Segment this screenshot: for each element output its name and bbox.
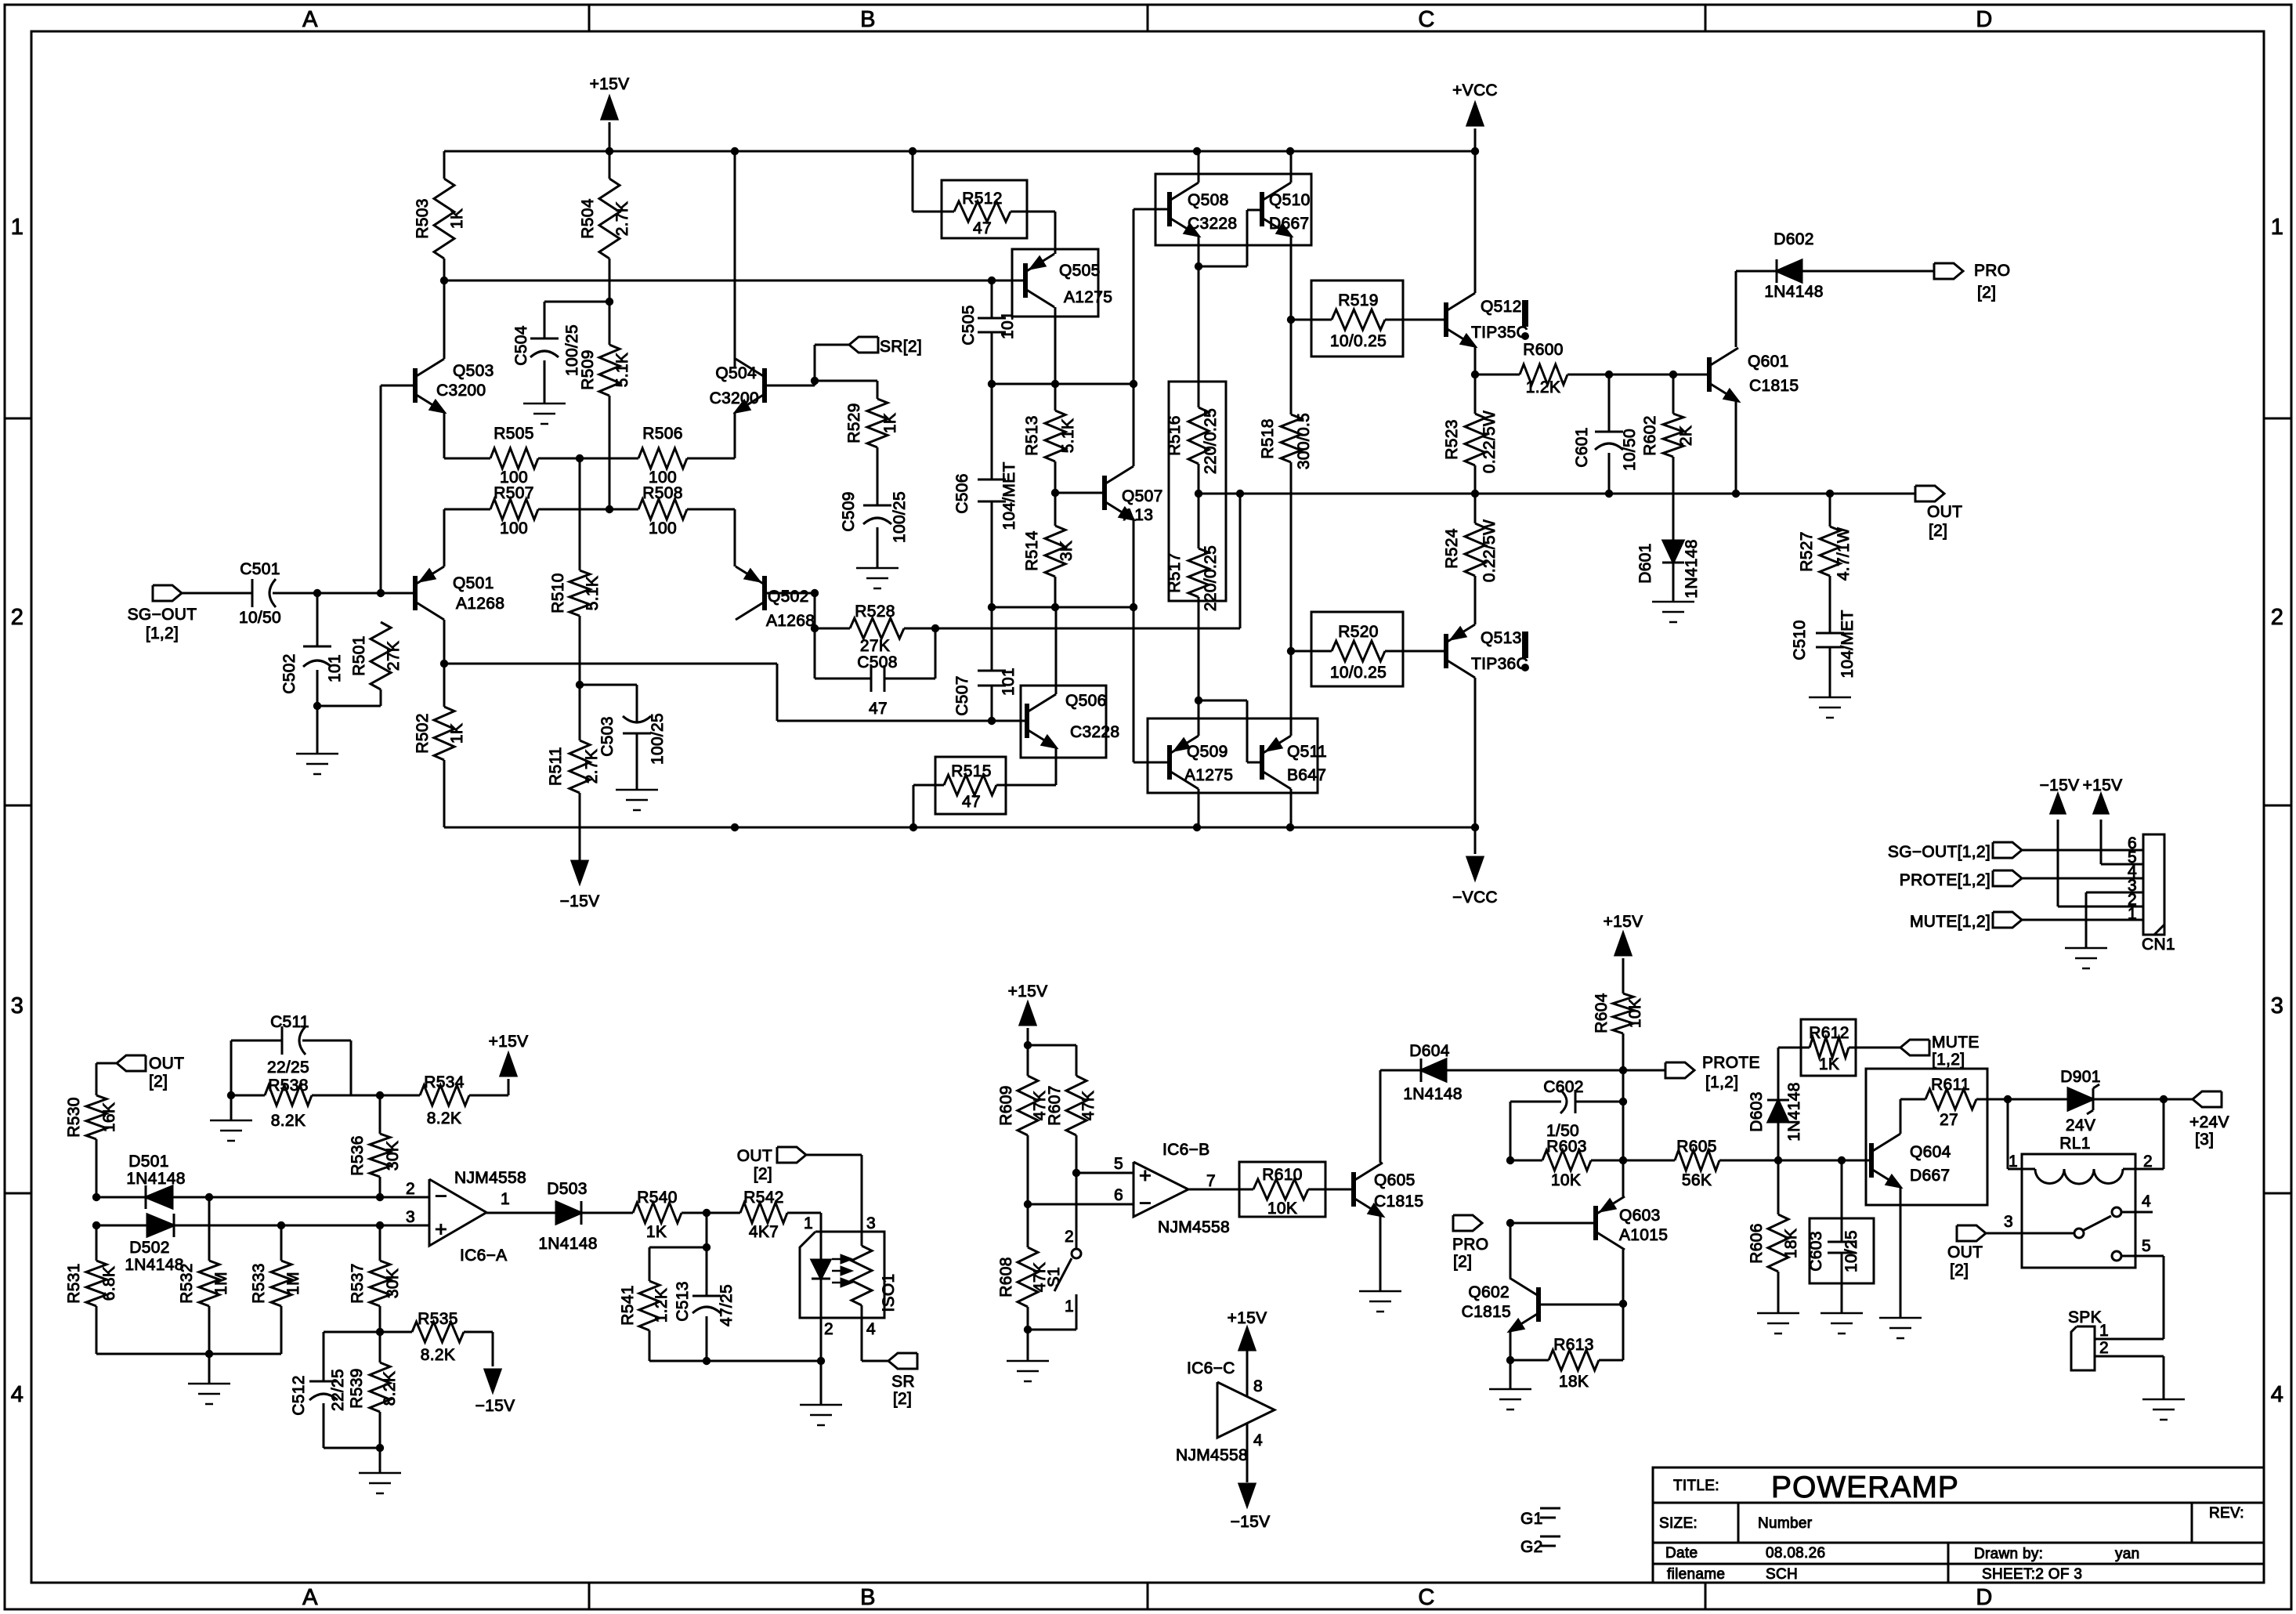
svg-text:+15V: +15V [1228, 1309, 1267, 1327]
svg-text:R517: R517 [1166, 552, 1184, 592]
svg-text:10K: 10K [1551, 1171, 1581, 1189]
svg-text:R611: R611 [1931, 1076, 1970, 1094]
svg-text:104/MET: 104/MET [1839, 610, 1857, 678]
svg-text:R613: R613 [1553, 1336, 1593, 1354]
svg-text:100/25: 100/25 [649, 713, 667, 765]
svg-text:C602: C602 [1543, 1078, 1583, 1096]
svg-text:Q602: Q602 [1468, 1283, 1510, 1301]
svg-text:ISO1: ISO1 [880, 1273, 898, 1312]
svg-text:1: 1 [2271, 215, 2283, 240]
svg-text:2: 2 [2099, 1339, 2109, 1357]
svg-text:R513: R513 [1023, 415, 1041, 455]
svg-text:C511: C511 [270, 1013, 309, 1031]
svg-text:C512: C512 [290, 1375, 308, 1415]
svg-text:OUT: OUT [149, 1055, 184, 1073]
svg-text:0.22/5W: 0.22/5W [1481, 519, 1499, 582]
svg-text:4K7: 4K7 [749, 1223, 779, 1241]
svg-text:PRO: PRO [1452, 1236, 1488, 1254]
svg-text:NJM4558: NJM4558 [1158, 1218, 1230, 1236]
svg-text:24V: 24V [2066, 1116, 2095, 1135]
svg-text:R609: R609 [997, 1085, 1015, 1125]
svg-text:R528: R528 [855, 603, 895, 621]
svg-text:18K: 18K [1782, 1229, 1800, 1258]
svg-text:−VCC: −VCC [1452, 888, 1498, 907]
svg-text:C1815: C1815 [1374, 1192, 1423, 1210]
svg-text:1K: 1K [448, 723, 466, 744]
svg-text:yan: yan [2115, 1546, 2140, 1562]
svg-text:[1,2]: [1,2] [1705, 1073, 1738, 1091]
svg-text:SG−OUT[1,2]: SG−OUT[1,2] [1888, 843, 1990, 861]
svg-text:10K: 10K [1267, 1200, 1297, 1218]
svg-text:Q605: Q605 [1374, 1171, 1416, 1189]
svg-text:R501: R501 [350, 635, 368, 675]
svg-text:R524: R524 [1443, 528, 1461, 568]
svg-text:R509: R509 [579, 349, 597, 389]
svg-text:4: 4 [1253, 1431, 1263, 1449]
svg-text:C505: C505 [960, 305, 978, 345]
svg-text:1: 1 [2009, 1153, 2018, 1171]
svg-text:NJM4558: NJM4558 [1176, 1446, 1248, 1464]
svg-text:R506: R506 [642, 425, 682, 443]
svg-text:R515: R515 [951, 762, 991, 780]
svg-text:G2: G2 [1520, 1538, 1543, 1556]
svg-text:R512: R512 [962, 190, 1002, 208]
svg-text:R610: R610 [1262, 1166, 1302, 1184]
svg-text:C504: C504 [512, 325, 530, 365]
svg-text:R530: R530 [65, 1097, 83, 1137]
svg-text:3: 3 [2004, 1213, 2013, 1231]
svg-text:C3200: C3200 [710, 389, 759, 407]
svg-text:MUTE[1,2]: MUTE[1,2] [1910, 913, 1990, 931]
svg-text:R533: R533 [250, 1263, 268, 1303]
svg-text:D604: D604 [1409, 1042, 1449, 1060]
svg-text:D667: D667 [1910, 1167, 1950, 1185]
svg-text:[2]: [2] [1950, 1261, 1969, 1279]
svg-text:C501: C501 [240, 560, 280, 578]
svg-text:1K: 1K [646, 1223, 667, 1241]
svg-text:SIZE:: SIZE: [1659, 1515, 1698, 1532]
svg-text:R505: R505 [494, 425, 533, 443]
svg-text:TIP36C: TIP36C [1471, 655, 1528, 673]
svg-text:−15V: −15V [2040, 776, 2080, 794]
svg-text:A: A [302, 7, 318, 32]
svg-text:C1815: C1815 [1749, 377, 1799, 395]
svg-text:G1: G1 [1520, 1510, 1543, 1528]
svg-text:47K: 47K [1031, 1262, 1049, 1292]
svg-text:NJM4558: NJM4558 [454, 1169, 526, 1187]
svg-text:REV:: REV: [2209, 1505, 2244, 1522]
svg-text:+15V: +15V [489, 1033, 529, 1051]
svg-text:C503: C503 [598, 716, 616, 756]
svg-text:56K: 56K [1682, 1171, 1712, 1189]
svg-text:1: 1 [2099, 1322, 2109, 1340]
svg-text:10/50: 10/50 [1621, 429, 1639, 471]
svg-text:2: 2 [406, 1180, 415, 1198]
svg-text:+: + [1139, 1164, 1152, 1188]
svg-text:−: − [435, 1184, 447, 1207]
svg-text:C3200: C3200 [436, 382, 486, 400]
svg-text:Q507: Q507 [1122, 487, 1163, 505]
svg-text:47: 47 [962, 793, 981, 811]
svg-text:1.2K: 1.2K [653, 1288, 671, 1323]
svg-text:TIP35C: TIP35C [1471, 324, 1528, 342]
svg-text:A: A [302, 1585, 318, 1610]
svg-text:R529: R529 [845, 403, 863, 443]
svg-text:TITLE:: TITLE: [1673, 1478, 1719, 1494]
svg-text:R541: R541 [619, 1285, 637, 1325]
svg-text:100/25: 100/25 [891, 491, 909, 543]
svg-text:2: 2 [2143, 1153, 2153, 1171]
svg-text:Q511: Q511 [1287, 743, 1327, 761]
svg-text:D502: D502 [129, 1239, 169, 1257]
svg-text:10K: 10K [1626, 998, 1644, 1028]
svg-text:10/25: 10/25 [1842, 1230, 1860, 1272]
svg-text:D603: D603 [1748, 1091, 1766, 1131]
svg-text:+15V: +15V [2083, 776, 2123, 794]
svg-text:6.8K: 6.8K [100, 1266, 118, 1301]
svg-text:R542: R542 [743, 1189, 783, 1207]
svg-text:2K: 2K [1677, 425, 1695, 446]
svg-text:27: 27 [1940, 1111, 1958, 1129]
svg-text:R602: R602 [1641, 415, 1659, 455]
svg-text:R507: R507 [494, 484, 533, 502]
svg-text:A13: A13 [1123, 506, 1153, 524]
svg-text:R603: R603 [1546, 1138, 1586, 1156]
svg-text:Q510: Q510 [1269, 191, 1311, 209]
svg-text:47: 47 [973, 219, 992, 237]
svg-text:B647: B647 [1287, 766, 1326, 784]
svg-text:2: 2 [11, 605, 24, 630]
svg-text:A1268: A1268 [766, 612, 815, 630]
svg-text:R514: R514 [1023, 530, 1041, 570]
svg-text:30K: 30K [384, 1141, 402, 1171]
svg-text:SG−OUT: SG−OUT [128, 606, 197, 624]
svg-text:D901: D901 [2060, 1068, 2100, 1086]
svg-text:D: D [1976, 1585, 1992, 1610]
svg-text:1.2K: 1.2K [1526, 378, 1560, 396]
svg-text:Q508: Q508 [1188, 191, 1229, 209]
svg-text:R504: R504 [579, 198, 597, 238]
svg-text:1N4148: 1N4148 [126, 1170, 185, 1188]
svg-text:R518: R518 [1259, 418, 1277, 458]
svg-text:R600: R600 [1523, 341, 1563, 359]
svg-text:30K: 30K [384, 1268, 402, 1298]
svg-text:10/0.25: 10/0.25 [1330, 332, 1387, 350]
svg-text:SR[2]: SR[2] [880, 338, 922, 356]
svg-text:8.2K: 8.2K [421, 1346, 455, 1364]
svg-text:47K: 47K [1079, 1091, 1097, 1120]
svg-text:PRO: PRO [1974, 262, 2010, 280]
svg-text:1N4148: 1N4148 [1403, 1085, 1462, 1103]
svg-text:A1268: A1268 [456, 595, 504, 613]
svg-text:R534: R534 [424, 1073, 464, 1091]
svg-text:R539: R539 [348, 1368, 366, 1408]
svg-text:R605: R605 [1676, 1138, 1716, 1156]
svg-text:A1015: A1015 [1619, 1226, 1668, 1244]
svg-text:3: 3 [406, 1208, 415, 1226]
svg-text:R511: R511 [547, 747, 565, 786]
svg-text:220/0.25: 220/0.25 [1202, 545, 1220, 611]
svg-text:MUTE: MUTE [1932, 1033, 1980, 1051]
svg-text:C: C [1418, 7, 1434, 32]
svg-text:18K: 18K [1559, 1373, 1589, 1391]
svg-text:Number: Number [1758, 1515, 1813, 1532]
svg-text:10/0.25: 10/0.25 [1330, 664, 1387, 682]
svg-text:1K: 1K [1819, 1055, 1839, 1073]
svg-text:3: 3 [11, 993, 24, 1019]
svg-text:PROTE: PROTE [1702, 1054, 1760, 1072]
svg-text:R538: R538 [268, 1077, 308, 1095]
svg-text:C507: C507 [953, 675, 971, 715]
svg-text:4: 4 [11, 1382, 24, 1407]
svg-text:4: 4 [2142, 1192, 2151, 1210]
svg-text:D602: D602 [1774, 230, 1813, 248]
svg-text:5.1K: 5.1K [584, 576, 602, 610]
svg-text:R523: R523 [1443, 419, 1461, 459]
svg-text:D501: D501 [128, 1153, 168, 1171]
svg-text:R519: R519 [1338, 291, 1378, 309]
svg-text:104/MET: 104/MET [1000, 461, 1018, 530]
svg-text:Q604: Q604 [1910, 1143, 1951, 1161]
svg-text:300/0.5: 300/0.5 [1295, 413, 1313, 469]
svg-text:IC6−A: IC6−A [460, 1247, 507, 1265]
svg-text:4: 4 [2271, 1382, 2283, 1407]
svg-text:−15V: −15V [1231, 1513, 1271, 1531]
svg-text:Q501: Q501 [453, 574, 494, 592]
svg-text:8.2K: 8.2K [271, 1112, 306, 1130]
svg-text:5.1K: 5.1K [1059, 418, 1077, 453]
svg-text:1N4148: 1N4148 [1683, 539, 1701, 598]
svg-text:22/25: 22/25 [329, 1369, 347, 1411]
svg-text:1N4148: 1N4148 [125, 1256, 183, 1274]
svg-text:2.7K: 2.7K [613, 201, 631, 236]
svg-text:Q512: Q512 [1481, 298, 1522, 316]
svg-text:B: B [860, 1585, 876, 1610]
svg-text:1: 1 [11, 215, 24, 240]
svg-text:+: + [435, 1218, 447, 1241]
svg-text:08.08.26: 08.08.26 [1766, 1545, 1825, 1562]
svg-text:5: 5 [2142, 1237, 2151, 1255]
svg-text:C601: C601 [1573, 427, 1591, 467]
svg-text:Q509: Q509 [1187, 743, 1228, 761]
svg-text:C502: C502 [280, 653, 298, 693]
svg-text:5.1K: 5.1K [613, 353, 631, 387]
svg-text:Q503: Q503 [453, 362, 494, 380]
svg-text:RL1: RL1 [2059, 1135, 2090, 1153]
svg-text:−: − [1139, 1192, 1152, 1215]
svg-text:[2]: [2] [1929, 522, 1947, 540]
svg-text:Q601: Q601 [1748, 353, 1789, 371]
svg-text:C509: C509 [840, 491, 858, 531]
svg-text:27K: 27K [385, 641, 403, 671]
svg-text:POWERAMP: POWERAMP [1771, 1471, 1959, 1504]
svg-text:R608: R608 [997, 1257, 1015, 1297]
svg-text:Q603: Q603 [1619, 1207, 1661, 1225]
svg-text:4.7/1W: 4.7/1W [1835, 527, 1853, 581]
svg-text:2: 2 [1065, 1228, 1074, 1246]
svg-text:Q513: Q513 [1481, 629, 1522, 647]
svg-text:Q502: Q502 [768, 588, 809, 606]
svg-text:Q505: Q505 [1059, 262, 1101, 280]
svg-text:OUT: OUT [737, 1147, 772, 1165]
svg-text:OUT: OUT [1947, 1243, 1983, 1261]
svg-text:R537: R537 [349, 1263, 367, 1303]
svg-text:1M: 1M [212, 1272, 230, 1295]
svg-text:1N4148: 1N4148 [1764, 283, 1823, 301]
svg-text:1N4148: 1N4148 [1785, 1082, 1803, 1141]
svg-text:8.2K: 8.2K [381, 1371, 399, 1406]
svg-text:+VCC: +VCC [1452, 81, 1498, 100]
svg-text:−15V: −15V [475, 1397, 515, 1415]
svg-text:1K: 1K [448, 208, 466, 229]
svg-text:CN1: CN1 [2142, 935, 2175, 954]
svg-text:R508: R508 [642, 484, 682, 502]
svg-text:0.22/5W: 0.22/5W [1481, 411, 1499, 473]
svg-text:R607: R607 [1046, 1085, 1064, 1125]
svg-text:Q506: Q506 [1065, 692, 1107, 710]
svg-text:[2]: [2] [754, 1165, 772, 1183]
svg-text:PROTE[1,2]: PROTE[1,2] [1900, 871, 1990, 889]
svg-text:A1275: A1275 [1064, 288, 1112, 306]
svg-text:[1,2]: [1,2] [146, 624, 179, 642]
svg-text:1M: 1M [284, 1272, 302, 1295]
svg-text:C510: C510 [1791, 620, 1809, 660]
svg-text:Date: Date [1665, 1545, 1698, 1562]
svg-text:C3228: C3228 [1070, 723, 1119, 741]
svg-text:+15V: +15V [1604, 913, 1643, 931]
svg-text:1K: 1K [881, 413, 899, 433]
svg-text:8.2K: 8.2K [427, 1109, 461, 1127]
svg-text:OUT: OUT [1927, 503, 1962, 521]
svg-text:R612: R612 [1809, 1024, 1849, 1042]
svg-text:B: B [860, 7, 876, 32]
svg-text:[2]: [2] [1977, 284, 1996, 302]
svg-text:R502: R502 [414, 713, 432, 753]
svg-text:[3]: [3] [2195, 1131, 2214, 1149]
svg-text:7: 7 [1206, 1172, 1216, 1190]
svg-text:SCH: SCH [1766, 1566, 1798, 1583]
svg-text:5: 5 [1114, 1155, 1123, 1173]
svg-text:1: 1 [2128, 905, 2137, 923]
svg-text:1: 1 [501, 1190, 510, 1208]
svg-text:3: 3 [866, 1214, 876, 1232]
svg-text:C508: C508 [857, 653, 897, 671]
svg-text:IC6−C: IC6−C [1187, 1359, 1235, 1377]
svg-text:C: C [1418, 1585, 1434, 1610]
svg-text:[2]: [2] [893, 1390, 912, 1408]
svg-text:47/25: 47/25 [718, 1284, 736, 1326]
svg-text:[2]: [2] [1453, 1253, 1472, 1271]
svg-text:16K: 16K [100, 1102, 118, 1132]
svg-text:D503: D503 [547, 1180, 587, 1198]
svg-text:A1275: A1275 [1184, 766, 1233, 784]
svg-text:C603: C603 [1807, 1231, 1825, 1271]
svg-text:Q504: Q504 [715, 364, 757, 382]
svg-text:C3228: C3228 [1188, 215, 1237, 233]
svg-text:6: 6 [1114, 1186, 1123, 1204]
svg-text:1N4148: 1N4148 [538, 1235, 597, 1253]
svg-text:R503: R503 [414, 198, 432, 238]
svg-text:22/25: 22/25 [267, 1059, 309, 1077]
svg-text:R510: R510 [549, 573, 567, 613]
svg-text:[1,2]: [1,2] [1932, 1051, 1965, 1069]
svg-text:+15V: +15V [1008, 983, 1048, 1001]
svg-text:R532: R532 [178, 1263, 196, 1303]
svg-text:−15V: −15V [560, 892, 600, 910]
svg-text:SPK: SPK [2068, 1308, 2102, 1326]
svg-text:1: 1 [1065, 1297, 1074, 1315]
svg-text:+24V: +24V [2189, 1113, 2229, 1131]
svg-text:10/50: 10/50 [239, 609, 281, 627]
svg-text:[2]: [2] [149, 1073, 168, 1091]
svg-text:C513: C513 [674, 1281, 692, 1321]
svg-text:D: D [1976, 7, 1992, 32]
svg-text:C1815: C1815 [1462, 1303, 1511, 1321]
svg-text:D601: D601 [1636, 543, 1654, 583]
svg-text:D667: D667 [1269, 215, 1309, 233]
svg-text:IC6−B: IC6−B [1162, 1141, 1209, 1159]
svg-text:SHEET:2 OF 3: SHEET:2 OF 3 [1982, 1566, 2082, 1583]
svg-text:100: 100 [500, 519, 528, 537]
svg-text:R531: R531 [65, 1263, 83, 1303]
svg-text:Drawn by:: Drawn by: [1974, 1546, 2043, 1562]
svg-text:220/0.25: 220/0.25 [1202, 408, 1220, 474]
svg-text:+15V: +15V [590, 75, 630, 93]
svg-text:R520: R520 [1338, 623, 1378, 641]
svg-text:3: 3 [2271, 993, 2283, 1019]
svg-text:R536: R536 [349, 1135, 367, 1175]
svg-text:R516: R516 [1166, 415, 1184, 455]
svg-text:R540: R540 [637, 1189, 677, 1207]
svg-text:27K: 27K [860, 637, 890, 655]
svg-text:3K: 3K [1058, 541, 1076, 561]
svg-text:4: 4 [866, 1320, 876, 1338]
svg-text:R535: R535 [418, 1310, 457, 1328]
svg-text:R606: R606 [1748, 1223, 1766, 1263]
svg-text:R604: R604 [1593, 993, 1611, 1033]
svg-text:R527: R527 [1798, 531, 1816, 571]
svg-text:100: 100 [649, 519, 677, 537]
svg-text:101: 101 [1000, 668, 1018, 696]
svg-text:8: 8 [1253, 1377, 1263, 1395]
svg-text:1: 1 [804, 1214, 813, 1232]
svg-text:2: 2 [2271, 605, 2283, 630]
svg-text:47: 47 [869, 700, 888, 718]
svg-text:2: 2 [824, 1320, 833, 1338]
svg-text:101: 101 [326, 654, 344, 682]
svg-text:101: 101 [999, 311, 1017, 339]
svg-text:SR: SR [891, 1373, 915, 1391]
svg-text:C506: C506 [953, 473, 971, 513]
svg-text:filename: filename [1667, 1566, 1725, 1583]
